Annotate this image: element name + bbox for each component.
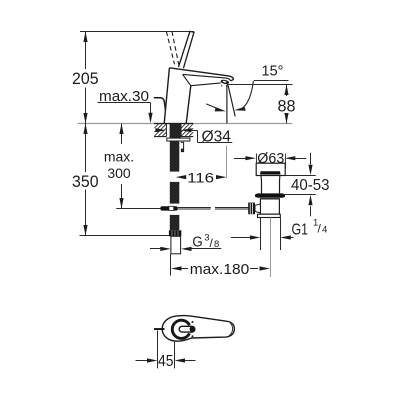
drain locknut: [255, 193, 285, 198]
svg-text:40-53: 40-53: [291, 177, 330, 194]
drain rod knob: [248, 203, 260, 215]
dimension 88: [227, 85, 296, 124]
handle (dashed alternate position): [166, 32, 178, 65]
pull-rod knob hook at rear of body: [154, 98, 166, 110]
svg-text:G1: G1: [292, 222, 309, 239]
svg-text:116: 116: [187, 170, 214, 186]
deck cross-section with hatching: [154, 123, 193, 136]
faucet body: [164, 68, 233, 124]
G 3/8 hose nut: [169, 230, 181, 236]
svg-text:4: 4: [322, 225, 327, 236]
aerator at spout tip: [220, 79, 229, 87]
threaded shank through deck: [170, 123, 181, 138]
top reference line: [80, 31, 194, 33]
svg-text:Ø34: Ø34: [202, 128, 232, 145]
svg-text:15°: 15°: [262, 64, 284, 80]
svg-text:88: 88: [278, 96, 296, 115]
counter line: [78, 123, 293, 125]
dimension 205: [72, 32, 99, 124]
handle boss circles: [172, 320, 195, 338]
handle (solid position): [179, 31, 195, 68]
svg-text:8: 8: [214, 239, 219, 250]
15 degree label and leader: [254, 64, 289, 81]
svg-text:Ø63: Ø63: [257, 151, 284, 167]
drain tailpipe: [261, 218, 281, 278]
handle top view outline: [162, 316, 234, 342]
handle stub: [154, 328, 165, 330]
washer under deck: [167, 138, 190, 141]
dimension Ø63: [234, 151, 306, 168]
dimension G1 1/4: [231, 218, 327, 240]
15 degree angle arc with arrows: [206, 81, 253, 111]
svg-text:45: 45: [158, 353, 174, 370]
dimension 350: [72, 124, 169, 236]
svg-text:max.180: max.180: [190, 261, 250, 278]
Ø34 label with bent leader: [191, 128, 232, 145]
water stream vertical line: [226, 85, 228, 123]
dimension max.30 with leader: [98, 89, 153, 123]
drain lower body: [258, 199, 281, 218]
mounting nut tab: [181, 142, 184, 151]
drain body: [261, 176, 280, 194]
dimension 40-53: [282, 153, 330, 217]
pop-up rod line (left extension part): [116, 208, 160, 210]
dimension max.180: [171, 254, 271, 278]
dimension max.300: [104, 124, 134, 209]
Ø34 arrows at deck hole: [155, 128, 191, 132]
svg-text:300: 300: [107, 165, 131, 181]
drain flange: [256, 163, 285, 175]
svg-text:G: G: [192, 234, 202, 251]
pop-up rod (right part, double line with break): [178, 208, 249, 210]
dimension 45: [136, 331, 196, 370]
dimension G 3/8: [150, 232, 221, 251]
dimension 116: [176, 146, 227, 186]
svg-text:max.: max.: [104, 149, 134, 165]
svg-text:205: 205: [72, 69, 99, 88]
water stream 15 degree line: [228, 85, 235, 116]
svg-text:350: 350: [72, 172, 99, 191]
handle screw dots: [192, 321, 194, 337]
hose end tube: [171, 236, 181, 254]
rod connector at hose: [160, 206, 178, 210]
supply hose (hatched) segments: [170, 141, 180, 230]
